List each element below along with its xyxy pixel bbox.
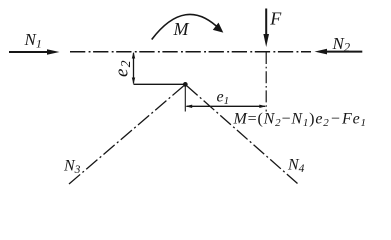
svg-text:e1: e1 <box>217 89 230 108</box>
moment arc M <box>152 14 224 39</box>
svg-text:M=(N2−N1)e2−Fe1: M=(N2−N1)e2−Fe1 <box>233 111 367 130</box>
svg-text:e2: e2 <box>112 59 134 77</box>
svg-text:F: F <box>269 8 282 28</box>
svg-text:N1: N1 <box>24 30 42 51</box>
vertical extension line below node <box>184 85 186 112</box>
svg-text:N4: N4 <box>287 157 305 176</box>
svg-text:N3: N3 <box>63 158 81 177</box>
svg-text:M: M <box>173 19 190 39</box>
svg-text:N2: N2 <box>332 34 351 55</box>
diagonal axis line N3 (dash-dot) <box>69 86 184 184</box>
force arrow N2 <box>315 49 363 55</box>
force arrow F <box>263 9 269 48</box>
node (black dot) <box>183 82 188 87</box>
dimension e1 horizontal line with arrowheads <box>185 105 266 108</box>
dimension e2 vertical line with arrowheads <box>132 52 135 85</box>
force arrow N1 <box>9 49 60 55</box>
horizontal centerline (dash-dot) <box>70 51 311 53</box>
vertical dash-dot axis line below F <box>265 52 267 112</box>
horizontal connector line from e2 to node <box>134 83 186 85</box>
diagonal axis line N4 (dash-dot) <box>187 86 298 184</box>
